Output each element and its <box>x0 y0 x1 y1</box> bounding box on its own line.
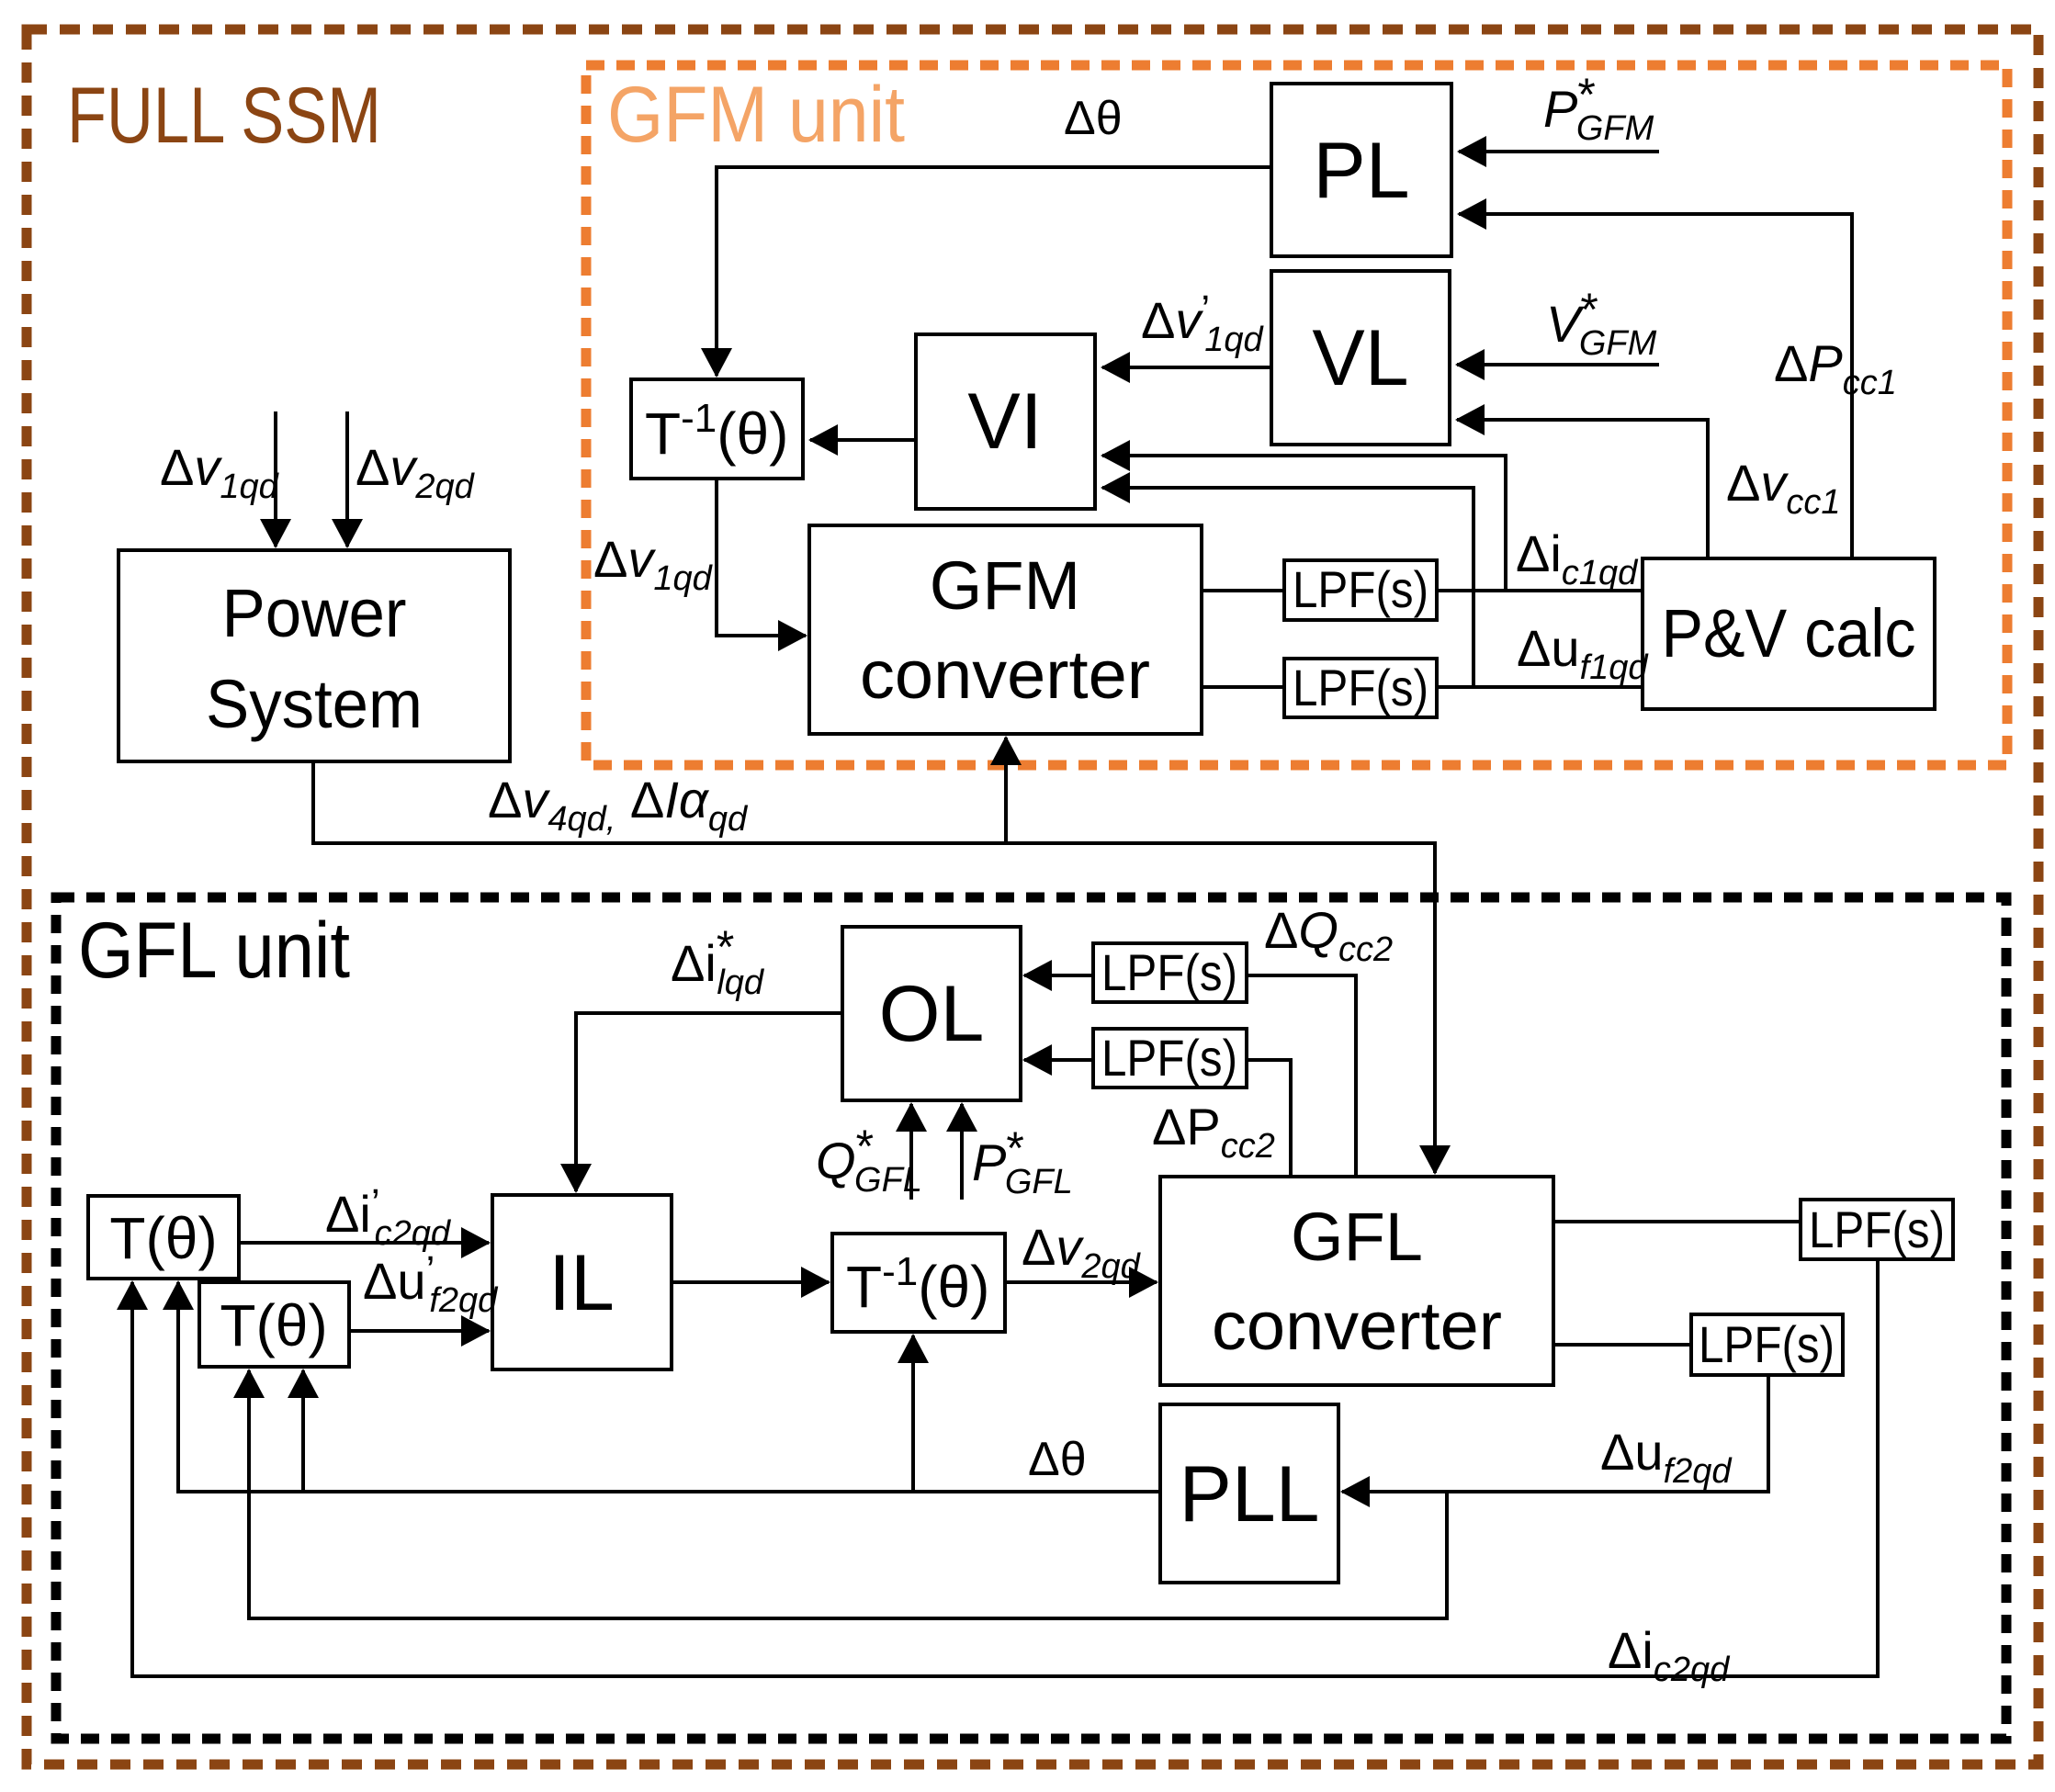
block Power System <box>119 550 510 761</box>
block T(θ) 1 <box>88 1196 239 1279</box>
block LPF(s) B <box>1093 1029 1247 1088</box>
svg-text:T-1(θ): T-1(θ) <box>846 1249 989 1320</box>
svg-text:Δθ: Δθ <box>1028 1433 1087 1486</box>
block T(θ) 2 <box>199 1282 349 1367</box>
svg-text:Δi’c2qd: Δi’c2qd <box>325 1181 452 1253</box>
svg-text:Δv1qd: Δv1qd <box>593 530 714 598</box>
svg-text:PL: PL <box>1313 127 1409 215</box>
svg-text:Δic2qd: Δic2qd <box>1608 1621 1731 1689</box>
svg-text:V*GFM: V*GFM <box>1546 284 1657 363</box>
wire ΔPcc2 from GFL converter to LPF(s) B <box>1247 1060 1291 1177</box>
block IL <box>492 1195 672 1369</box>
svg-text:ΔPcc2: ΔPcc2 <box>1152 1098 1275 1166</box>
wire Δic2qd from LPF(s) C to T(θ)1 <box>132 1259 1878 1676</box>
wire GFM converter to LPF(s) upper <box>1202 589 1284 592</box>
wire Δuf1qd LPF(s) lower to P&V calc <box>1437 685 1643 689</box>
svg-text:Δi*lqd: Δi*lqd <box>671 921 765 1002</box>
block T-1(θ) GFL <box>832 1234 1005 1332</box>
GFL unit dashed border <box>56 897 2006 1739</box>
wire Δv1qd from T-1(θ) to GFM converter <box>717 479 806 636</box>
block LPF(s) D <box>1691 1314 1843 1375</box>
wire Δθ from PL to T-1(θ) <box>717 167 1271 376</box>
wire GFL converter to LPF(s) C <box>1553 1220 1801 1223</box>
svg-text:FULL SSM: FULL SSM <box>67 72 381 160</box>
GFM unit dashed border <box>586 65 2007 765</box>
svg-text:LPF(s): LPF(s) <box>1699 1315 1835 1373</box>
svg-text:ΔPcc1: ΔPcc1 <box>1774 334 1897 402</box>
svg-text:Δθ: Δθ <box>1064 92 1123 145</box>
wire ΔQcc2 from GFL converter to LPF(s) A <box>1247 975 1356 1177</box>
block OL <box>842 927 1021 1100</box>
svg-text:Δv2qd: Δv2qd <box>1022 1218 1142 1286</box>
svg-text:VI: VI <box>967 378 1042 466</box>
wire Δv1qd input arrow into Power System <box>274 411 277 547</box>
svg-text:converter: converter <box>1212 1288 1502 1364</box>
block LPF(s) A <box>1093 943 1247 1002</box>
svg-text:GFM: GFM <box>930 547 1080 624</box>
svg-text:PLL: PLL <box>1179 1450 1319 1538</box>
svg-text:Δuf2qd: Δuf2qd <box>1600 1423 1733 1491</box>
wire GFL converter to LPF(s) D <box>1553 1343 1691 1347</box>
wire LPF(s) A into OL <box>1024 974 1093 977</box>
wire Δθ branch to T(θ)2 <box>301 1370 305 1492</box>
svg-text:System: System <box>206 666 423 742</box>
svg-text:LPF(s): LPF(s) <box>1809 1200 1945 1258</box>
svg-text:P&V calc: P&V calc <box>1662 595 1916 671</box>
svg-text:T(θ): T(θ) <box>220 1292 327 1358</box>
svg-text:Δvcc1: Δvcc1 <box>1726 454 1841 522</box>
wire Δv2qd input arrow into Power System <box>345 411 349 547</box>
wire Δv2qd from T-1(θ) to GFL converter <box>1005 1280 1157 1284</box>
wire Δic1qd LPF(s) upper to P&V calc <box>1437 589 1643 592</box>
wire Δθ branch to T-1(θ) GFL <box>911 1336 915 1492</box>
svg-text:T-1(θ): T-1(θ) <box>645 396 788 467</box>
svg-text:Δuf1qd: Δuf1qd <box>1517 619 1649 687</box>
block LPF(s) GFM lower <box>1284 659 1437 717</box>
wire Δi'c2qd from T(θ)1 to IL <box>239 1241 489 1245</box>
wire Δθ from PLL to T(θ)1 <box>178 1282 1160 1492</box>
svg-text:Δv1qd: Δv1qd <box>160 438 280 506</box>
block P&V calc <box>1643 558 1935 709</box>
wire Δic1qd branch up into VI <box>1102 456 1506 591</box>
svg-text:Power: Power <box>222 575 407 651</box>
svg-text:GFL: GFL <box>1291 1199 1423 1275</box>
block LPF(s) GFM upper <box>1284 560 1437 620</box>
wire Δuf2qd branch to T(θ)2 <box>249 1370 1447 1618</box>
wire Δvcc1 from P&V calc to VL <box>1457 420 1708 558</box>
block GFM converter <box>809 525 1202 734</box>
wire Δuf1qd branch up into VI <box>1102 488 1474 687</box>
svg-text:GFL unit: GFL unit <box>78 907 350 995</box>
wire IL to T-1(θ) GFL <box>672 1280 829 1284</box>
svg-text:GFM unit: GFM unit <box>607 71 905 159</box>
svg-text:Δic1qd: Δic1qd <box>1516 524 1639 592</box>
block PL <box>1271 84 1451 256</box>
svg-text:ΔQcc2: ΔQcc2 <box>1264 901 1393 969</box>
svg-text:P*GFL: P*GFL <box>972 1122 1073 1201</box>
svg-text:P*GFM: P*GFM <box>1543 69 1654 148</box>
wire Δv'1qd from VL to VI <box>1102 366 1271 369</box>
wire P*GFM into PL <box>1459 150 1659 153</box>
block T-1(θ) GFM <box>631 379 803 479</box>
wire Δv4qd ΔIαqd from Power System <box>313 761 1435 1173</box>
svg-text:T(θ): T(θ) <box>109 1205 217 1271</box>
svg-text:OL: OL <box>879 970 985 1058</box>
svg-text:Q*GFL: Q*GFL <box>816 1121 922 1200</box>
svg-text:Δu’f2qd: Δu’f2qd <box>363 1248 499 1320</box>
block VI <box>916 334 1095 509</box>
svg-text:LPF(s): LPF(s) <box>1101 943 1237 1001</box>
wire LPF(s) B into OL <box>1024 1058 1093 1062</box>
svg-text:IL: IL <box>548 1239 615 1327</box>
svg-text:Δv’1qd: Δv’1qd <box>1141 287 1264 359</box>
svg-text:Δv4qd, ΔIαqd: Δv4qd, ΔIαqd <box>488 771 749 839</box>
wire Δuf2qd from LPF(s) D to PLL <box>1342 1375 1768 1492</box>
wire P*GFL into OL <box>960 1104 964 1200</box>
svg-text:VL: VL <box>1312 314 1408 402</box>
wire Δu'f2qd from T(θ)2 to IL <box>349 1329 489 1333</box>
block LPF(s) C <box>1801 1200 1953 1259</box>
block VL <box>1271 271 1450 445</box>
block PLL <box>1160 1404 1338 1583</box>
wire GFM converter to LPF(s) lower <box>1202 685 1284 689</box>
wire V*GFM into VL <box>1457 363 1659 366</box>
wire VI to T-1(θ) <box>810 438 916 442</box>
wire Δi*lqd from OL to IL <box>576 1013 842 1191</box>
svg-text:converter: converter <box>860 637 1150 713</box>
wire ΔPcc1 from P&V calc to PL <box>1459 214 1852 558</box>
block GFL converter <box>1160 1177 1553 1385</box>
svg-text:Δv2qd: Δv2qd <box>356 438 476 506</box>
svg-text:LPF(s): LPF(s) <box>1293 659 1428 716</box>
svg-text:LPF(s): LPF(s) <box>1101 1029 1237 1087</box>
wire branch up into GFM converter <box>1004 738 1008 843</box>
svg-text:LPF(s): LPF(s) <box>1293 560 1428 618</box>
wire Q*GFL into OL <box>909 1104 913 1200</box>
